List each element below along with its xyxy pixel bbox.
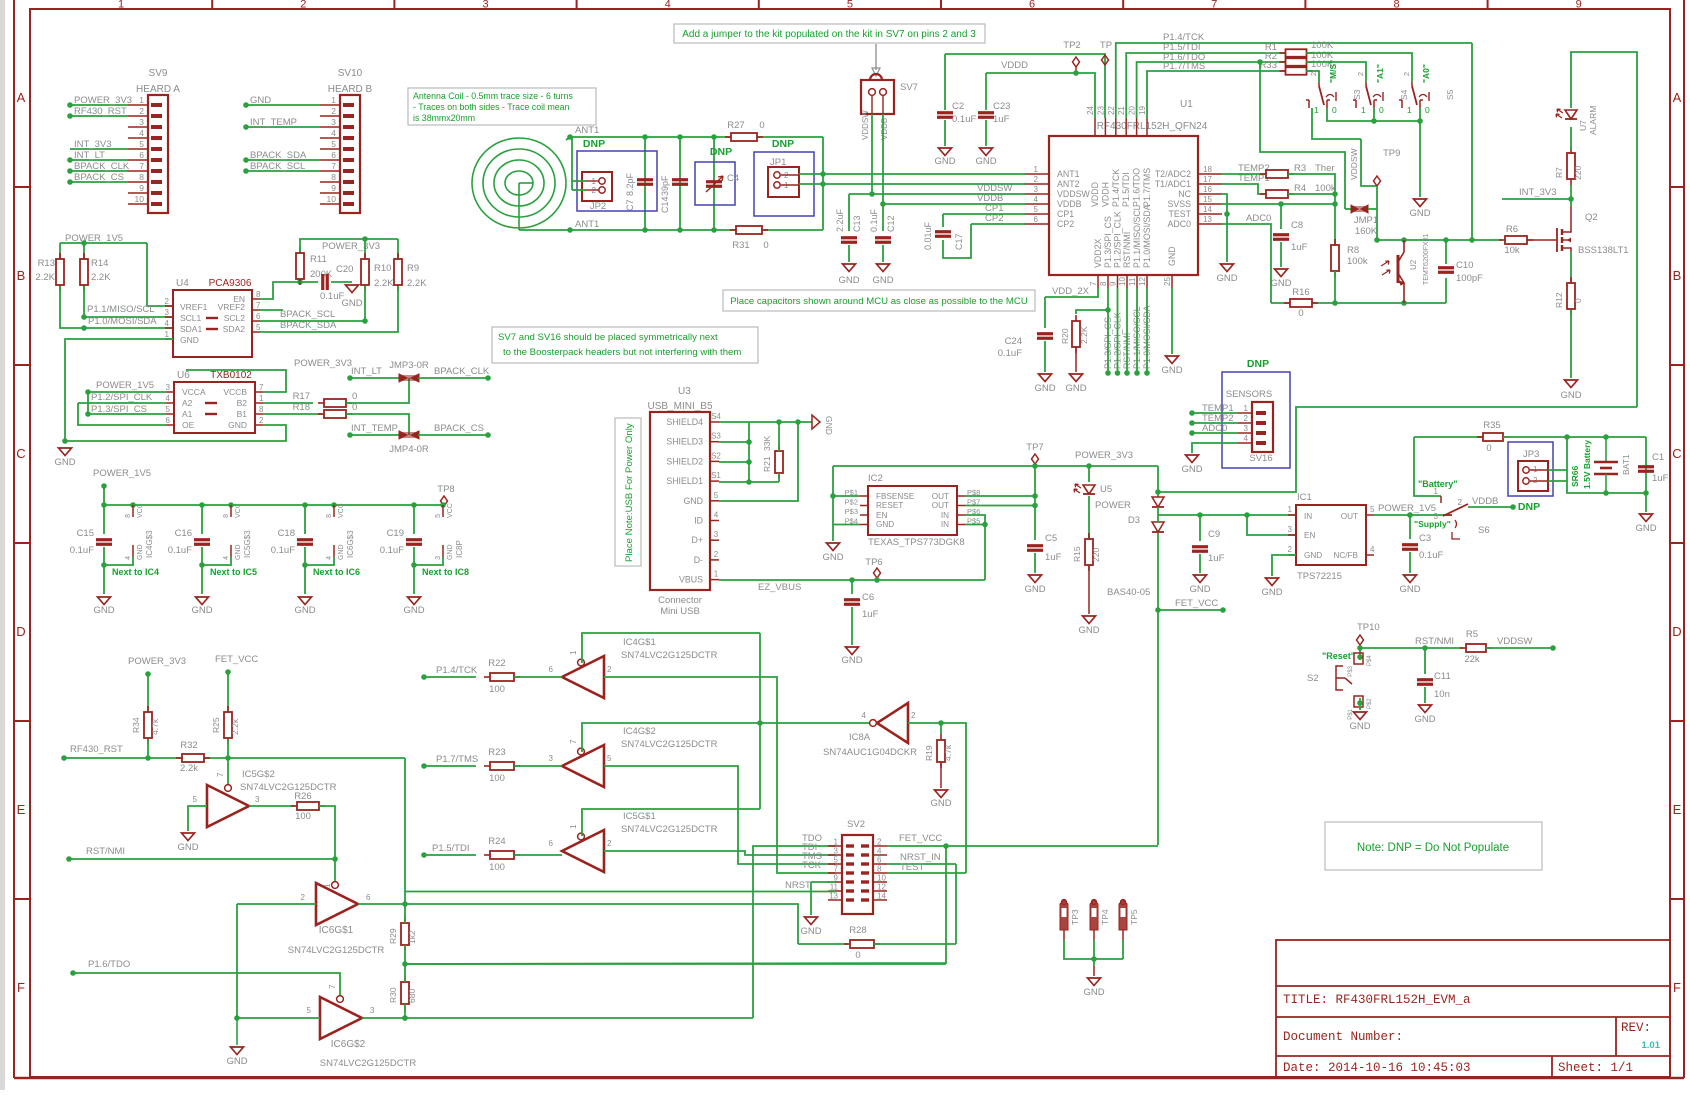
svg-text:GND: GND xyxy=(177,842,198,853)
svg-text:VCC: VCC xyxy=(447,503,454,518)
svg-text:0: 0 xyxy=(1298,308,1303,319)
svg-text:TP9: TP9 xyxy=(1383,148,1400,159)
svg-text:TP: TP xyxy=(1100,40,1112,51)
svg-text:C23: C23 xyxy=(993,101,1010,112)
svg-text:10k: 10k xyxy=(1504,245,1520,256)
svg-text:R3: R3 xyxy=(1294,163,1306,174)
svg-text:RF430_RST: RF430_RST xyxy=(70,744,123,755)
svg-text:7: 7 xyxy=(328,984,337,989)
svg-text:SV10: SV10 xyxy=(338,68,363,79)
svg-text:IC8P: IC8P xyxy=(455,540,464,558)
svg-text:3: 3 xyxy=(549,754,554,763)
svg-text:2: 2 xyxy=(300,0,306,11)
svg-text:2.2K: 2.2K xyxy=(374,278,394,289)
svg-text:S6: S6 xyxy=(1478,525,1490,536)
svg-text:SN74LVC2G125DCTR: SN74LVC2G125DCTR xyxy=(240,782,337,793)
svg-text:VDDB: VDDB xyxy=(880,118,889,140)
svg-text:4: 4 xyxy=(139,128,144,138)
svg-text:"Supply": "Supply" xyxy=(1414,519,1451,529)
svg-text:E: E xyxy=(1673,802,1682,817)
svg-text:ADC0: ADC0 xyxy=(1168,219,1192,229)
svg-text:3: 3 xyxy=(166,383,171,392)
svg-text:POWER: POWER xyxy=(1095,500,1131,511)
svg-text:C2: C2 xyxy=(952,101,964,112)
svg-text:DNP: DNP xyxy=(1518,501,1540,513)
svg-text:Connector: Connector xyxy=(658,595,702,606)
svg-text:"Reset": "Reset" xyxy=(1322,651,1355,661)
svg-text:10: 10 xyxy=(1118,277,1127,286)
svg-text:2: 2 xyxy=(1402,72,1411,76)
svg-text:R5: R5 xyxy=(1466,629,1478,640)
svg-text:0: 0 xyxy=(855,950,860,961)
svg-text:A1: A1 xyxy=(182,409,193,419)
svg-text:U3: U3 xyxy=(678,386,691,397)
svg-text:12: 12 xyxy=(1138,277,1147,286)
svg-text:TP7: TP7 xyxy=(1026,442,1043,453)
svg-text:4: 4 xyxy=(326,556,333,560)
svg-text:4: 4 xyxy=(165,319,170,328)
svg-text:E: E xyxy=(17,802,26,817)
svg-text:VDD_2X: VDD_2X xyxy=(1052,286,1090,297)
svg-text:SN74LVC2G125DCTR: SN74LVC2G125DCTR xyxy=(621,650,718,661)
svg-text:GND: GND xyxy=(1349,721,1370,732)
svg-text:3: 3 xyxy=(1288,525,1293,534)
svg-text:0: 0 xyxy=(759,120,764,131)
svg-text:BAS40-05: BAS40-05 xyxy=(1107,587,1150,598)
svg-text:INT_3V3: INT_3V3 xyxy=(74,139,112,150)
svg-text:R12: R12 xyxy=(1554,292,1564,308)
svg-text:R9: R9 xyxy=(407,263,419,274)
svg-text:OUT: OUT xyxy=(1341,512,1358,521)
svg-text:VDDSW: VDDSW xyxy=(1497,636,1532,647)
svg-text:9: 9 xyxy=(1576,0,1582,11)
svg-text:C18: C18 xyxy=(278,528,295,539)
svg-text:R13: R13 xyxy=(38,258,55,269)
svg-text:R32: R32 xyxy=(180,740,197,751)
svg-text:U7: U7 xyxy=(1578,120,1588,131)
svg-text:2: 2 xyxy=(331,106,336,116)
svg-text:BPACK_SCL: BPACK_SCL xyxy=(250,161,305,172)
svg-text:13: 13 xyxy=(1203,215,1212,224)
svg-text:GND: GND xyxy=(872,275,893,286)
svg-text:D3: D3 xyxy=(1128,515,1140,526)
svg-text:5: 5 xyxy=(331,139,336,149)
svg-text:SCL1: SCL1 xyxy=(180,313,202,323)
svg-text:P1.4/TCK: P1.4/TCK xyxy=(1111,169,1121,207)
svg-text:TCK: TCK xyxy=(802,860,822,871)
svg-text:"M/S": "M/S" xyxy=(1328,60,1338,83)
svg-text:7: 7 xyxy=(834,865,839,874)
svg-text:JMP1: JMP1 xyxy=(1354,215,1378,226)
svg-text:to the Boosterpack headers but: to the Boosterpack headers but not inter… xyxy=(503,347,741,358)
svg-text:2: 2 xyxy=(139,106,144,116)
svg-text:BSS138LT1: BSS138LT1 xyxy=(1578,245,1629,256)
svg-text:100: 100 xyxy=(489,773,505,784)
svg-text:2: 2 xyxy=(165,297,170,306)
svg-text:Next to IC5: Next to IC5 xyxy=(210,567,257,577)
svg-text:IC5G$1: IC5G$1 xyxy=(623,811,656,822)
svg-text:14: 14 xyxy=(877,892,886,901)
svg-text:D+: D+ xyxy=(692,535,704,545)
svg-text:3: 3 xyxy=(1244,424,1249,433)
svg-text:GND: GND xyxy=(228,420,247,430)
svg-text:SHIELD4: SHIELD4 xyxy=(666,417,703,427)
svg-text:GND: GND xyxy=(1409,208,1430,219)
svg-text:PCA9306: PCA9306 xyxy=(209,278,252,289)
svg-text:BPACK_SCL: BPACK_SCL xyxy=(280,309,335,320)
svg-text:C19: C19 xyxy=(387,528,404,539)
svg-text:TP6: TP6 xyxy=(865,557,882,568)
svg-text:IN: IN xyxy=(941,520,949,529)
svg-text:0.1uF: 0.1uF xyxy=(869,208,879,232)
svg-text:5: 5 xyxy=(1034,205,1039,214)
svg-text:100k: 100k xyxy=(1347,256,1368,267)
svg-text:TEST: TEST xyxy=(900,862,924,873)
svg-text:4: 4 xyxy=(1370,545,1375,554)
svg-text:S2: S2 xyxy=(711,451,721,460)
svg-text:P1.0/MOSI/SDA: P1.0/MOSI/SDA xyxy=(1142,204,1152,268)
svg-text:1uF: 1uF xyxy=(862,609,879,620)
svg-text:S4: S4 xyxy=(1399,89,1409,100)
svg-text:6: 6 xyxy=(366,893,371,902)
svg-text:VDDB: VDDB xyxy=(1057,199,1082,209)
svg-text:GND: GND xyxy=(403,605,424,616)
svg-text:BPACK_SDA: BPACK_SDA xyxy=(250,150,307,161)
svg-text:IN: IN xyxy=(941,511,949,520)
svg-text:9: 9 xyxy=(1109,281,1118,286)
svg-text:GND: GND xyxy=(1065,383,1086,394)
svg-text:IN: IN xyxy=(1304,512,1312,521)
svg-text:8: 8 xyxy=(139,172,144,182)
svg-text:2.2uF: 2.2uF xyxy=(835,208,845,232)
svg-text:Sheet: 1/1: Sheet: 1/1 xyxy=(1558,1061,1633,1075)
svg-text:21: 21 xyxy=(1117,106,1126,115)
svg-text:680: 680 xyxy=(407,989,417,1003)
svg-text:Q2: Q2 xyxy=(1585,212,1598,223)
svg-text:R17: R17 xyxy=(293,391,310,402)
svg-text:10n: 10n xyxy=(1434,689,1450,700)
svg-text:GND: GND xyxy=(800,926,821,937)
svg-text:11: 11 xyxy=(830,883,839,892)
svg-text:0: 0 xyxy=(1573,298,1583,303)
svg-text:C4: C4 xyxy=(727,173,739,184)
svg-text:DNP: DNP xyxy=(772,138,794,150)
svg-text:2: 2 xyxy=(911,711,916,720)
svg-text:6: 6 xyxy=(1029,0,1035,11)
svg-text:T1/ADC1: T1/ADC1 xyxy=(1155,179,1191,189)
svg-text:P1.3/SPI_CS: P1.3/SPI_CS xyxy=(1103,216,1113,268)
svg-text:6: 6 xyxy=(549,665,554,674)
svg-text:R18: R18 xyxy=(293,402,310,413)
svg-text:R30: R30 xyxy=(388,987,398,1003)
svg-text:0: 0 xyxy=(1379,105,1384,115)
svg-text:IC5G$3: IC5G$3 xyxy=(243,530,252,558)
svg-text:1: 1 xyxy=(1407,105,1412,115)
svg-text:ANT2: ANT2 xyxy=(1057,179,1080,189)
svg-text:C8: C8 xyxy=(1291,220,1303,231)
svg-text:GND: GND xyxy=(1024,584,1045,595)
svg-text:GND: GND xyxy=(934,156,955,167)
svg-text:R15: R15 xyxy=(1072,546,1082,562)
svg-text:2: 2 xyxy=(1458,498,1463,507)
svg-text:0.1uF: 0.1uF xyxy=(168,545,192,556)
svg-text:4: 4 xyxy=(331,128,336,138)
svg-text:INT_LT: INT_LT xyxy=(74,150,105,161)
svg-text:GND: GND xyxy=(876,520,894,529)
svg-text:0: 0 xyxy=(763,240,768,251)
svg-text:8: 8 xyxy=(331,172,336,182)
svg-text:3: 3 xyxy=(482,0,488,11)
svg-text:1uF: 1uF xyxy=(1652,473,1669,484)
svg-text:1uF: 1uF xyxy=(993,114,1010,125)
svg-text:GND: GND xyxy=(1078,625,1099,636)
svg-text:GND: GND xyxy=(1304,551,1322,560)
svg-text:0.1uF: 0.1uF xyxy=(271,545,295,556)
svg-text:2: 2 xyxy=(1244,414,1249,423)
svg-text:GND: GND xyxy=(1161,365,1182,376)
svg-text:Antenna Coil - 0.5mm trace siz: Antenna Coil - 0.5mm trace size - 6 turn… xyxy=(413,91,573,101)
svg-text:P$4: P$4 xyxy=(1367,655,1373,666)
svg-text:8: 8 xyxy=(1099,281,1108,286)
svg-text:RST/NMI: RST/NMI xyxy=(1415,636,1454,647)
svg-text:R19: R19 xyxy=(924,745,934,761)
svg-text:C16: C16 xyxy=(175,528,192,539)
svg-text:GND: GND xyxy=(1083,987,1104,998)
svg-text:1: 1 xyxy=(1034,165,1039,174)
svg-text:U5: U5 xyxy=(1100,484,1112,495)
svg-text:S1: S1 xyxy=(711,471,721,480)
svg-text:0: 0 xyxy=(1486,443,1491,454)
svg-text:9: 9 xyxy=(331,183,336,193)
svg-text:15: 15 xyxy=(1203,195,1212,204)
svg-text:VDDSW: VDDSW xyxy=(1349,148,1359,180)
svg-text:1: 1 xyxy=(569,824,578,829)
svg-text:JP3: JP3 xyxy=(1523,449,1539,460)
svg-text:7: 7 xyxy=(259,383,264,392)
svg-text:GND: GND xyxy=(93,605,114,616)
svg-text:RST/NMI: RST/NMI xyxy=(86,846,125,857)
svg-text:INT_3V3: INT_3V3 xyxy=(1519,187,1557,198)
svg-text:0.1uF: 0.1uF xyxy=(1419,550,1443,561)
svg-text:RF430FRL152H_QFN24: RF430FRL152H_QFN24 xyxy=(1097,121,1208,132)
svg-text:GND: GND xyxy=(1414,714,1435,725)
svg-text:0: 0 xyxy=(352,402,357,413)
svg-text:"A1": "A1" xyxy=(1375,64,1385,83)
svg-text:0: 0 xyxy=(1332,105,1337,115)
svg-text:D: D xyxy=(1672,624,1681,639)
svg-text:TP5: TP5 xyxy=(1129,909,1139,925)
svg-text:R22: R22 xyxy=(488,658,505,669)
svg-text:8: 8 xyxy=(256,290,261,299)
svg-text:2.2K: 2.2K xyxy=(407,278,427,289)
svg-text:25: 25 xyxy=(1163,277,1172,286)
svg-text:1.01: 1.01 xyxy=(1642,1040,1661,1051)
svg-text:4: 4 xyxy=(862,711,867,720)
svg-text:TP2: TP2 xyxy=(1063,40,1080,51)
svg-text:1: 1 xyxy=(834,838,839,847)
svg-text:6: 6 xyxy=(331,150,336,160)
svg-text:7: 7 xyxy=(139,161,144,171)
svg-text:TP3: TP3 xyxy=(1070,909,1080,925)
svg-text:SHIELD3: SHIELD3 xyxy=(666,437,703,447)
svg-text:SV7 and SV16 should be placed: SV7 and SV16 should be placed symmetrica… xyxy=(498,332,718,343)
svg-text:GND: GND xyxy=(1399,584,1420,595)
svg-text:POWER_1V5: POWER_1V5 xyxy=(96,380,154,391)
svg-text:2: 2 xyxy=(1034,175,1039,184)
svg-text:USB_MINI_B5: USB_MINI_B5 xyxy=(647,401,712,412)
svg-text:S2: S2 xyxy=(1307,673,1319,684)
svg-text:JP2: JP2 xyxy=(590,201,606,212)
svg-text:Ther: Ther xyxy=(1315,163,1335,174)
svg-text:160K: 160K xyxy=(1355,226,1378,237)
svg-text:SR66: SR66 xyxy=(1570,465,1580,487)
svg-text:GND: GND xyxy=(975,156,996,167)
svg-text:1: 1 xyxy=(1288,505,1293,514)
svg-text:POWER_3V3: POWER_3V3 xyxy=(128,656,186,667)
svg-text:4: 4 xyxy=(1244,434,1249,443)
svg-text:S3: S3 xyxy=(1352,89,1362,100)
svg-text:5: 5 xyxy=(307,1006,312,1015)
svg-text:Place Note:USB For Power Only: Place Note:USB For Power Only xyxy=(624,423,635,562)
svg-text:FET_VCC: FET_VCC xyxy=(1175,598,1218,609)
svg-text:7: 7 xyxy=(256,301,261,310)
svg-text:4: 4 xyxy=(1034,195,1039,204)
svg-text:5: 5 xyxy=(166,405,171,414)
svg-text:SN74LVC2G125DCTR: SN74LVC2G125DCTR xyxy=(621,824,718,835)
svg-text:9: 9 xyxy=(139,183,144,193)
svg-text:- Traces on both sides - Trace: - Traces on both sides - Trace coil mean xyxy=(413,102,570,112)
svg-text:GND: GND xyxy=(137,544,144,560)
svg-text:GND: GND xyxy=(180,335,199,345)
svg-text:1uF: 1uF xyxy=(1045,552,1062,563)
svg-text:R8: R8 xyxy=(1347,245,1359,256)
svg-text:POWER_1V5: POWER_1V5 xyxy=(1378,503,1436,514)
svg-text:C7: C7 xyxy=(625,199,635,211)
svg-text:BPACK_CS: BPACK_CS xyxy=(434,423,484,434)
svg-text:GND: GND xyxy=(824,416,834,435)
svg-text:R35: R35 xyxy=(1483,420,1500,431)
svg-text:S3: S3 xyxy=(711,432,721,441)
svg-text:C9: C9 xyxy=(1208,529,1220,540)
svg-text:HEARD B: HEARD B xyxy=(328,84,373,95)
svg-text:B: B xyxy=(17,268,26,283)
svg-text:HEARD A: HEARD A xyxy=(136,84,180,95)
svg-text:SV7: SV7 xyxy=(900,82,918,93)
svg-text:8: 8 xyxy=(259,405,264,414)
svg-text:GND: GND xyxy=(191,605,212,616)
svg-text:U6: U6 xyxy=(177,370,190,381)
svg-text:NC: NC xyxy=(1178,189,1191,199)
svg-text:P1.5/TDI: P1.5/TDI xyxy=(432,843,470,854)
svg-text:IC2: IC2 xyxy=(868,473,883,484)
svg-text:6: 6 xyxy=(139,150,144,160)
svg-text:0: 0 xyxy=(352,391,357,402)
svg-text:VREF1: VREF1 xyxy=(180,302,208,312)
svg-text:2.2K: 2.2K xyxy=(91,272,111,283)
svg-text:100k: 100k xyxy=(1315,183,1336,194)
svg-text:VDD2X: VDD2X xyxy=(1093,239,1103,268)
svg-text:S5: S5 xyxy=(1445,89,1455,100)
svg-text:P1.7/TMS: P1.7/TMS xyxy=(1163,61,1205,72)
svg-text:2: 2 xyxy=(301,893,306,902)
svg-text:1uF: 1uF xyxy=(1291,242,1308,253)
svg-text:Place capacitors shown around: Place capacitors shown around MCU as clo… xyxy=(730,296,1028,307)
svg-text:ANT1: ANT1 xyxy=(575,219,599,230)
svg-text:4: 4 xyxy=(223,556,230,560)
svg-text:2: 2 xyxy=(1288,545,1293,554)
svg-text:R16: R16 xyxy=(1292,287,1309,298)
svg-text:8: 8 xyxy=(223,514,230,518)
svg-text:1: 1 xyxy=(259,394,264,403)
svg-text:1: 1 xyxy=(1314,105,1319,115)
svg-text:C15: C15 xyxy=(77,528,94,539)
svg-text:1: 1 xyxy=(139,95,144,105)
svg-text:U4: U4 xyxy=(176,278,189,289)
svg-text:6: 6 xyxy=(256,312,261,321)
svg-text:P1.7/TMS: P1.7/TMS xyxy=(1142,168,1152,207)
svg-text:JMP3-0R: JMP3-0R xyxy=(389,360,429,371)
svg-text:VDDSW: VDDSW xyxy=(861,110,870,140)
svg-text:6: 6 xyxy=(549,839,554,848)
svg-text:GND: GND xyxy=(1189,584,1210,595)
svg-text:R29: R29 xyxy=(388,928,398,944)
svg-text:2.2K: 2.2K xyxy=(35,272,55,283)
svg-text:EZ_VBUS: EZ_VBUS xyxy=(758,582,801,593)
svg-text:1: 1 xyxy=(331,95,336,105)
svg-text:8: 8 xyxy=(877,865,882,874)
svg-text:OUT: OUT xyxy=(932,501,949,510)
svg-text:2: 2 xyxy=(1356,72,1365,76)
svg-text:ADC0: ADC0 xyxy=(1202,423,1227,434)
svg-text:SHIELD1: SHIELD1 xyxy=(666,476,703,486)
svg-text:100pF: 100pF xyxy=(1456,273,1483,284)
svg-text:0.1uF: 0.1uF xyxy=(998,348,1022,359)
svg-text:R14: R14 xyxy=(91,258,108,269)
svg-text:U1: U1 xyxy=(1180,99,1193,110)
svg-text:13: 13 xyxy=(829,892,838,901)
svg-text:11: 11 xyxy=(1128,277,1137,286)
svg-text:1: 1 xyxy=(1244,404,1249,413)
svg-text:DNP: DNP xyxy=(583,138,605,150)
svg-text:R34: R34 xyxy=(131,717,141,733)
svg-text:8: 8 xyxy=(1393,0,1399,11)
svg-text:R21: R21 xyxy=(762,456,772,472)
svg-text:BPACK_CLK: BPACK_CLK xyxy=(74,161,130,172)
svg-text:DNP: DNP xyxy=(710,146,732,158)
svg-text:7: 7 xyxy=(1089,281,1098,286)
svg-text:P$2: P$2 xyxy=(845,498,858,507)
svg-text:R26: R26 xyxy=(294,791,311,802)
svg-text:INT_TEMP: INT_TEMP xyxy=(250,117,297,128)
svg-text:SDA1: SDA1 xyxy=(180,324,202,334)
svg-text:1uF: 1uF xyxy=(1208,553,1225,564)
svg-text:C5: C5 xyxy=(1045,533,1057,544)
svg-text:A: A xyxy=(17,90,26,105)
svg-text:5: 5 xyxy=(1370,505,1375,514)
svg-text:B1: B1 xyxy=(237,409,248,419)
svg-text:is 38mmx20mm: is 38mmx20mm xyxy=(413,113,475,123)
svg-text:1k2: 1k2 xyxy=(407,930,417,944)
svg-text:IC4G$1: IC4G$1 xyxy=(623,637,656,648)
svg-text:BPACK_CS: BPACK_CS xyxy=(74,172,124,183)
svg-text:17: 17 xyxy=(1203,175,1212,184)
svg-text:3: 3 xyxy=(139,117,144,127)
svg-text:1.5V Battery: 1.5V Battery xyxy=(1582,440,1592,489)
svg-text:IC6G$2: IC6G$2 xyxy=(331,1039,366,1050)
svg-text:GND: GND xyxy=(1216,273,1237,284)
svg-text:5: 5 xyxy=(193,795,198,804)
svg-text:12: 12 xyxy=(877,883,886,892)
